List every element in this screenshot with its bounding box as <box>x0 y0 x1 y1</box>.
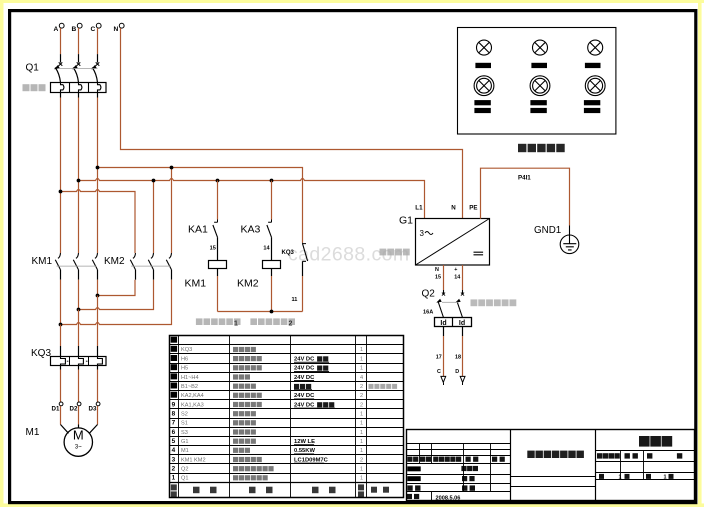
svg-text:16A: 16A <box>423 310 433 316</box>
svg-text:1: 1 <box>619 475 622 481</box>
svg-text:S1: S1 <box>181 421 188 427</box>
svg-text:L1: L1 <box>415 205 423 212</box>
svg-text:KA1: KA1 <box>188 224 208 236</box>
svg-text:0.55KW: 0.55KW <box>294 448 315 454</box>
svg-text:H1~H4: H1~H4 <box>181 375 199 381</box>
wire phase B vertical to KM1 <box>78 98 80 254</box>
wire phase A vertical to KM1 <box>60 98 62 254</box>
svg-text:KQ3: KQ3 <box>181 347 192 353</box>
label KA1 <box>188 224 208 236</box>
label M1 <box>26 427 40 438</box>
svg-text:Q2: Q2 <box>181 466 188 472</box>
svg-text:1: 1 <box>360 466 363 472</box>
G1 power supply box <box>416 219 490 266</box>
G1 output wires <box>444 265 463 290</box>
svg-text:15: 15 <box>435 275 441 281</box>
svg-text:17: 17 <box>436 355 442 361</box>
label KA3 <box>241 224 261 236</box>
relay contact KA3 + coil KM2 <box>263 181 281 312</box>
svg-text:KM1 KM2: KM1 KM2 <box>181 457 206 463</box>
label bar col2 <box>531 63 547 68</box>
arrow out 17 <box>441 376 446 385</box>
labels C D <box>437 369 459 375</box>
label jiaoliu-jiechuqi-1 (gray) <box>196 318 241 327</box>
svg-text:1: 1 <box>360 439 363 445</box>
Q1 trip unit box <box>51 83 107 93</box>
svg-text:D: D <box>455 369 459 375</box>
wire PE to ground <box>481 168 570 225</box>
terminal D2 <box>70 402 82 412</box>
label G1 <box>399 215 413 227</box>
KM2 link line <box>131 265 171 267</box>
relay contact KA1 + coil KM1 <box>209 181 227 312</box>
wire number 11 <box>292 297 298 303</box>
svg-text:2: 2 <box>172 465 176 472</box>
svg-text:14: 14 <box>263 246 270 252</box>
Q1 mechanical link <box>58 68 98 70</box>
svg-text:6: 6 <box>172 429 176 436</box>
bus B rail y180 (to G1 L1) with hops <box>79 178 425 218</box>
wire KM2 pole2 feed <box>153 181 155 254</box>
svg-text:8: 8 <box>172 410 176 417</box>
ground GND1 <box>560 226 579 254</box>
svg-text:2: 2 <box>360 402 363 408</box>
svg-text:KM2: KM2 <box>104 256 125 267</box>
label bars col1 <box>474 100 490 113</box>
svg-text:M: M <box>73 428 84 443</box>
label KM1 <box>32 256 53 267</box>
wire below Q1 x=78.5 <box>78 93 80 98</box>
BOM table header <box>171 484 389 497</box>
svg-text:1: 1 <box>234 320 238 327</box>
svg-text:24V DC: 24V DC <box>294 356 315 362</box>
indicator lamp big col2 <box>530 76 550 96</box>
svg-text:1: 1 <box>360 356 363 362</box>
svg-text:H6: H6 <box>181 356 188 362</box>
coil label KM2 <box>237 278 259 290</box>
svg-text:KA1,KA3: KA1,KA3 <box>181 402 204 408</box>
indicator lamp small col1 <box>477 40 492 55</box>
label jiaoliu-jiechuqi-2 (gray) <box>250 318 295 327</box>
wire KM1p1 down to rail324 <box>60 280 62 325</box>
svg-text:G1: G1 <box>399 215 413 227</box>
svg-text:15: 15 <box>210 246 216 252</box>
wire phase B drop <box>78 28 80 54</box>
indicator lamp big col3 <box>585 76 605 96</box>
indicator lamp small col2 <box>533 40 548 55</box>
terminal D1 <box>52 402 63 412</box>
switch Q1 pole C <box>91 54 99 82</box>
svg-text:2008.5.06: 2008.5.06 <box>436 495 461 501</box>
BOM table rows content <box>171 337 397 482</box>
contactor contact KM1 pole2 <box>73 253 78 280</box>
rail 295 C-KM2p1 <box>98 280 136 296</box>
svg-text:3~: 3~ <box>75 445 82 451</box>
terminal B <box>72 23 83 33</box>
svg-text:S3: S3 <box>181 430 188 436</box>
contactor contact KM2 pole1 <box>130 253 135 280</box>
svg-text:KM1: KM1 <box>32 256 53 267</box>
bus C rail y167 <box>98 168 303 243</box>
svg-text:24V DC: 24V DC <box>294 366 315 372</box>
terminal N <box>114 23 125 33</box>
KM1 link line <box>57 265 97 267</box>
svg-text:Id: Id <box>440 320 446 327</box>
svg-text:5: 5 <box>172 438 176 445</box>
wire D2 to motor <box>78 406 80 425</box>
wire D1 to motor <box>60 406 62 425</box>
svg-text:N: N <box>114 26 119 33</box>
svg-text:B: B <box>72 26 77 33</box>
wire D3 to motor <box>97 406 99 425</box>
svg-text:3: 3 <box>420 229 425 238</box>
contactor contact KM1 pole3 <box>92 253 97 280</box>
svg-text:G1: G1 <box>181 439 188 445</box>
contactor contact KM2 pole3 <box>166 253 171 280</box>
label KQ3 aux <box>282 250 295 256</box>
wire B to overload <box>78 310 80 357</box>
rail 309 B-KM2p2 with hop <box>79 280 154 310</box>
svg-text:M1: M1 <box>26 427 40 438</box>
wire phase C drop <box>97 28 99 54</box>
wire neutral N drop and top bus to G1 <box>121 28 463 219</box>
svg-text:A: A <box>54 26 59 33</box>
svg-text:1: 1 <box>360 347 363 353</box>
svg-text:Q1: Q1 <box>26 63 40 74</box>
svg-text:2: 2 <box>360 457 363 463</box>
svg-text:1: 1 <box>360 421 363 427</box>
svg-text:1: 1 <box>664 475 667 481</box>
svg-text:+: + <box>454 267 457 273</box>
svg-text:GND1: GND1 <box>534 225 561 236</box>
rail 324 A-KM2p3 with hops <box>61 280 172 325</box>
contactor contact KM2 pole2 <box>148 253 153 280</box>
svg-text:11: 11 <box>292 297 298 303</box>
svg-text:N: N <box>435 267 439 273</box>
terminal C <box>91 23 102 33</box>
watermark cad2688.com <box>288 244 409 266</box>
svg-text:KM2: KM2 <box>237 278 259 290</box>
svg-text:4: 4 <box>172 447 176 454</box>
label KM2 <box>104 256 125 267</box>
motor leads <box>61 425 98 434</box>
label PE <box>469 205 477 212</box>
svg-text:KQ3: KQ3 <box>31 348 51 359</box>
wire D3 drop <box>97 366 99 403</box>
svg-text:B1~B2: B1~B2 <box>181 384 198 390</box>
label KQ3 <box>31 348 51 359</box>
svg-text:D2: D2 <box>70 405 78 412</box>
svg-text:LC1D09M7C: LC1D09M7C <box>294 457 329 463</box>
label zhiliu-dianyuan (gray) <box>380 249 410 256</box>
label bars col2 <box>530 100 546 113</box>
indicator lamp small col3 <box>588 40 603 55</box>
svg-text:24V DC: 24V DC <box>294 393 315 399</box>
KQ3 heater elements <box>61 357 103 366</box>
label kongzhi-huilu-kaiguan (gray) <box>471 299 517 306</box>
svg-text:Q2: Q2 <box>422 289 436 300</box>
label bar col3 <box>585 63 601 68</box>
wire phase A drop <box>60 28 62 54</box>
label 16A <box>423 310 433 316</box>
wire below Q1 x=97.5 <box>97 93 99 98</box>
svg-text:7: 7 <box>172 420 176 427</box>
indicator lamp big col1 <box>474 76 494 96</box>
svg-text:1: 1 <box>360 411 363 417</box>
coil label KM1 <box>185 278 207 290</box>
terminal A <box>54 23 65 33</box>
svg-text:3: 3 <box>172 456 176 463</box>
svg-text:14: 14 <box>454 275 460 281</box>
svg-text:S2: S2 <box>181 411 188 417</box>
svg-text:1: 1 <box>360 366 363 372</box>
wire KM1p2 down to rail309 <box>78 280 80 310</box>
wire KM2 pole3 feed <box>171 168 173 254</box>
svg-text:C: C <box>437 369 441 375</box>
svg-text:2: 2 <box>289 320 293 327</box>
svg-text:24V DC: 24V DC <box>294 402 315 408</box>
node dots bottom rails <box>59 294 100 327</box>
svg-text:1: 1 <box>172 475 176 482</box>
svg-text:1: 1 <box>360 448 363 454</box>
wire below Q1 x=60.5 <box>60 93 62 98</box>
breaker Q2 pole 2 <box>455 290 464 318</box>
label GND1 <box>534 225 561 236</box>
svg-text:PE: PE <box>469 205 477 212</box>
svg-text:D1: D1 <box>52 405 60 412</box>
switch Q1 pole B <box>72 54 80 82</box>
svg-text:4: 4 <box>360 375 363 381</box>
label zong-kai-guan (gray) <box>23 84 46 91</box>
svg-text:12W LE: 12W LE <box>294 439 315 445</box>
svg-text:2: 2 <box>360 384 363 390</box>
bus A rail y191 with hops <box>61 190 136 254</box>
arrow out 18 <box>460 376 465 385</box>
svg-text:M1: M1 <box>181 448 189 454</box>
svg-text:D3: D3 <box>89 405 97 412</box>
svg-text:1: 1 <box>360 430 363 436</box>
KQ3 aux contact branch <box>303 243 308 312</box>
wire phase C vertical to KM1 <box>97 98 99 254</box>
wire D2 drop <box>78 366 80 403</box>
terminal D3 <box>89 402 101 412</box>
label P4I1 <box>518 175 531 182</box>
thermal overload KQ3 box <box>51 357 107 366</box>
label Q2 <box>422 289 436 300</box>
title block <box>407 430 695 502</box>
wire C to overload <box>97 296 99 357</box>
svg-text:1: 1 <box>360 476 363 482</box>
switch Q1 pole A <box>54 54 62 82</box>
svg-text:2: 2 <box>360 393 363 399</box>
svg-text:P4I1: P4I1 <box>518 175 531 182</box>
wire A to overload <box>60 325 62 357</box>
BOM table grid <box>170 336 404 498</box>
svg-text:KQ3: KQ3 <box>282 250 295 256</box>
label bar col1 <box>475 63 491 68</box>
node dots top rails <box>59 166 274 194</box>
svg-text:Q1: Q1 <box>181 476 188 482</box>
label bars col3 <box>584 100 600 113</box>
svg-text:KA3: KA3 <box>241 224 261 236</box>
svg-text:KM1: KM1 <box>185 278 207 290</box>
svg-text:Id: Id <box>459 320 465 327</box>
contactor contact KM1 pole1 <box>55 253 60 280</box>
label L1 <box>415 205 423 212</box>
panel outline <box>458 28 616 135</box>
wire KM1p3 down to rail295 <box>97 280 99 296</box>
Q2 output wires <box>444 327 463 377</box>
label Q1 <box>26 63 40 74</box>
svg-text:N: N <box>451 205 456 212</box>
motor M1 <box>64 428 92 457</box>
breaker Q2 pole 1 <box>436 290 445 318</box>
Q2 trip box Id Id <box>435 318 472 328</box>
labels N 15 + 14 under G1 <box>435 267 460 281</box>
wire D1 drop <box>60 366 62 403</box>
coil return rail <box>218 310 303 314</box>
svg-text:18: 18 <box>455 355 461 361</box>
svg-text:9: 9 <box>172 401 176 408</box>
label mianban-shiyitu <box>518 144 565 152</box>
svg-text:H5: H5 <box>181 366 188 372</box>
svg-text:KA2,KA4: KA2,KA4 <box>181 393 204 399</box>
svg-text:C: C <box>91 26 96 33</box>
label N (G1) <box>451 205 456 212</box>
Q2 link line <box>442 301 458 303</box>
svg-text:24V DC: 24V DC <box>294 375 315 381</box>
labels 17 18 <box>436 355 461 361</box>
